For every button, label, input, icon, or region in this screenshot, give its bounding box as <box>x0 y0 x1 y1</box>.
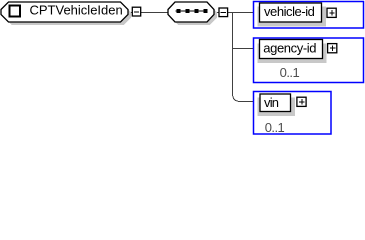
svg-text:0..1: 0..1 <box>280 65 300 80</box>
svg-text:0..1: 0..1 <box>265 120 285 135</box>
svg-text:vin: vin <box>264 95 279 110</box>
svg-text:agency-id: agency-id <box>263 40 316 55</box>
svg-text:CPTVehicleIden: CPTVehicleIden <box>30 3 123 18</box>
svg-text:vehicle-id: vehicle-id <box>264 4 315 19</box>
